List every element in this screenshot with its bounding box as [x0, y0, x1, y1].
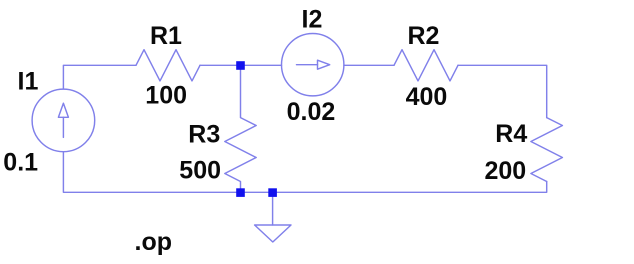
resistor R1 [136, 50, 200, 81]
wire top-left from I1 top to top rail [63, 65, 136, 89]
wire I2 to R2 [344, 64, 394, 66]
wire R1 to node A [200, 64, 241, 66]
wire R4 to bottom rail [63, 152, 546, 193]
svg-text:R2: R2 [408, 22, 440, 50]
svg-text:R1: R1 [150, 22, 182, 50]
svg-text:0.1: 0.1 [3, 148, 38, 176]
svg-text:0.02: 0.02 [287, 98, 336, 126]
resistor R4 [531, 118, 563, 182]
svg-text:500: 500 [179, 156, 221, 184]
svg-text:.op: .op [135, 228, 173, 256]
svg-text:200: 200 [485, 157, 527, 185]
svg-text:R4: R4 [495, 120, 527, 148]
node bottom under R3 [236, 188, 245, 197]
svg-text:I1: I1 [18, 68, 39, 96]
svg-text:100: 100 [145, 82, 187, 110]
node bottom at ground tap [268, 188, 277, 197]
svg-text:I2: I2 [302, 6, 323, 34]
resistor R2 [394, 50, 458, 81]
wire node A to I2 [241, 64, 282, 66]
svg-text:400: 400 [406, 83, 448, 111]
current source I2 [282, 33, 344, 95]
resistor R3 with leads [225, 65, 256, 192]
wire R2 to top-right corner then down to R4 [458, 65, 547, 117]
svg-text:R3: R3 [188, 120, 220, 148]
current source I1 [32, 89, 95, 152]
ground [255, 225, 291, 242]
node A (junction R1/I2/R3) [236, 61, 245, 70]
ground wire [272, 192, 274, 225]
